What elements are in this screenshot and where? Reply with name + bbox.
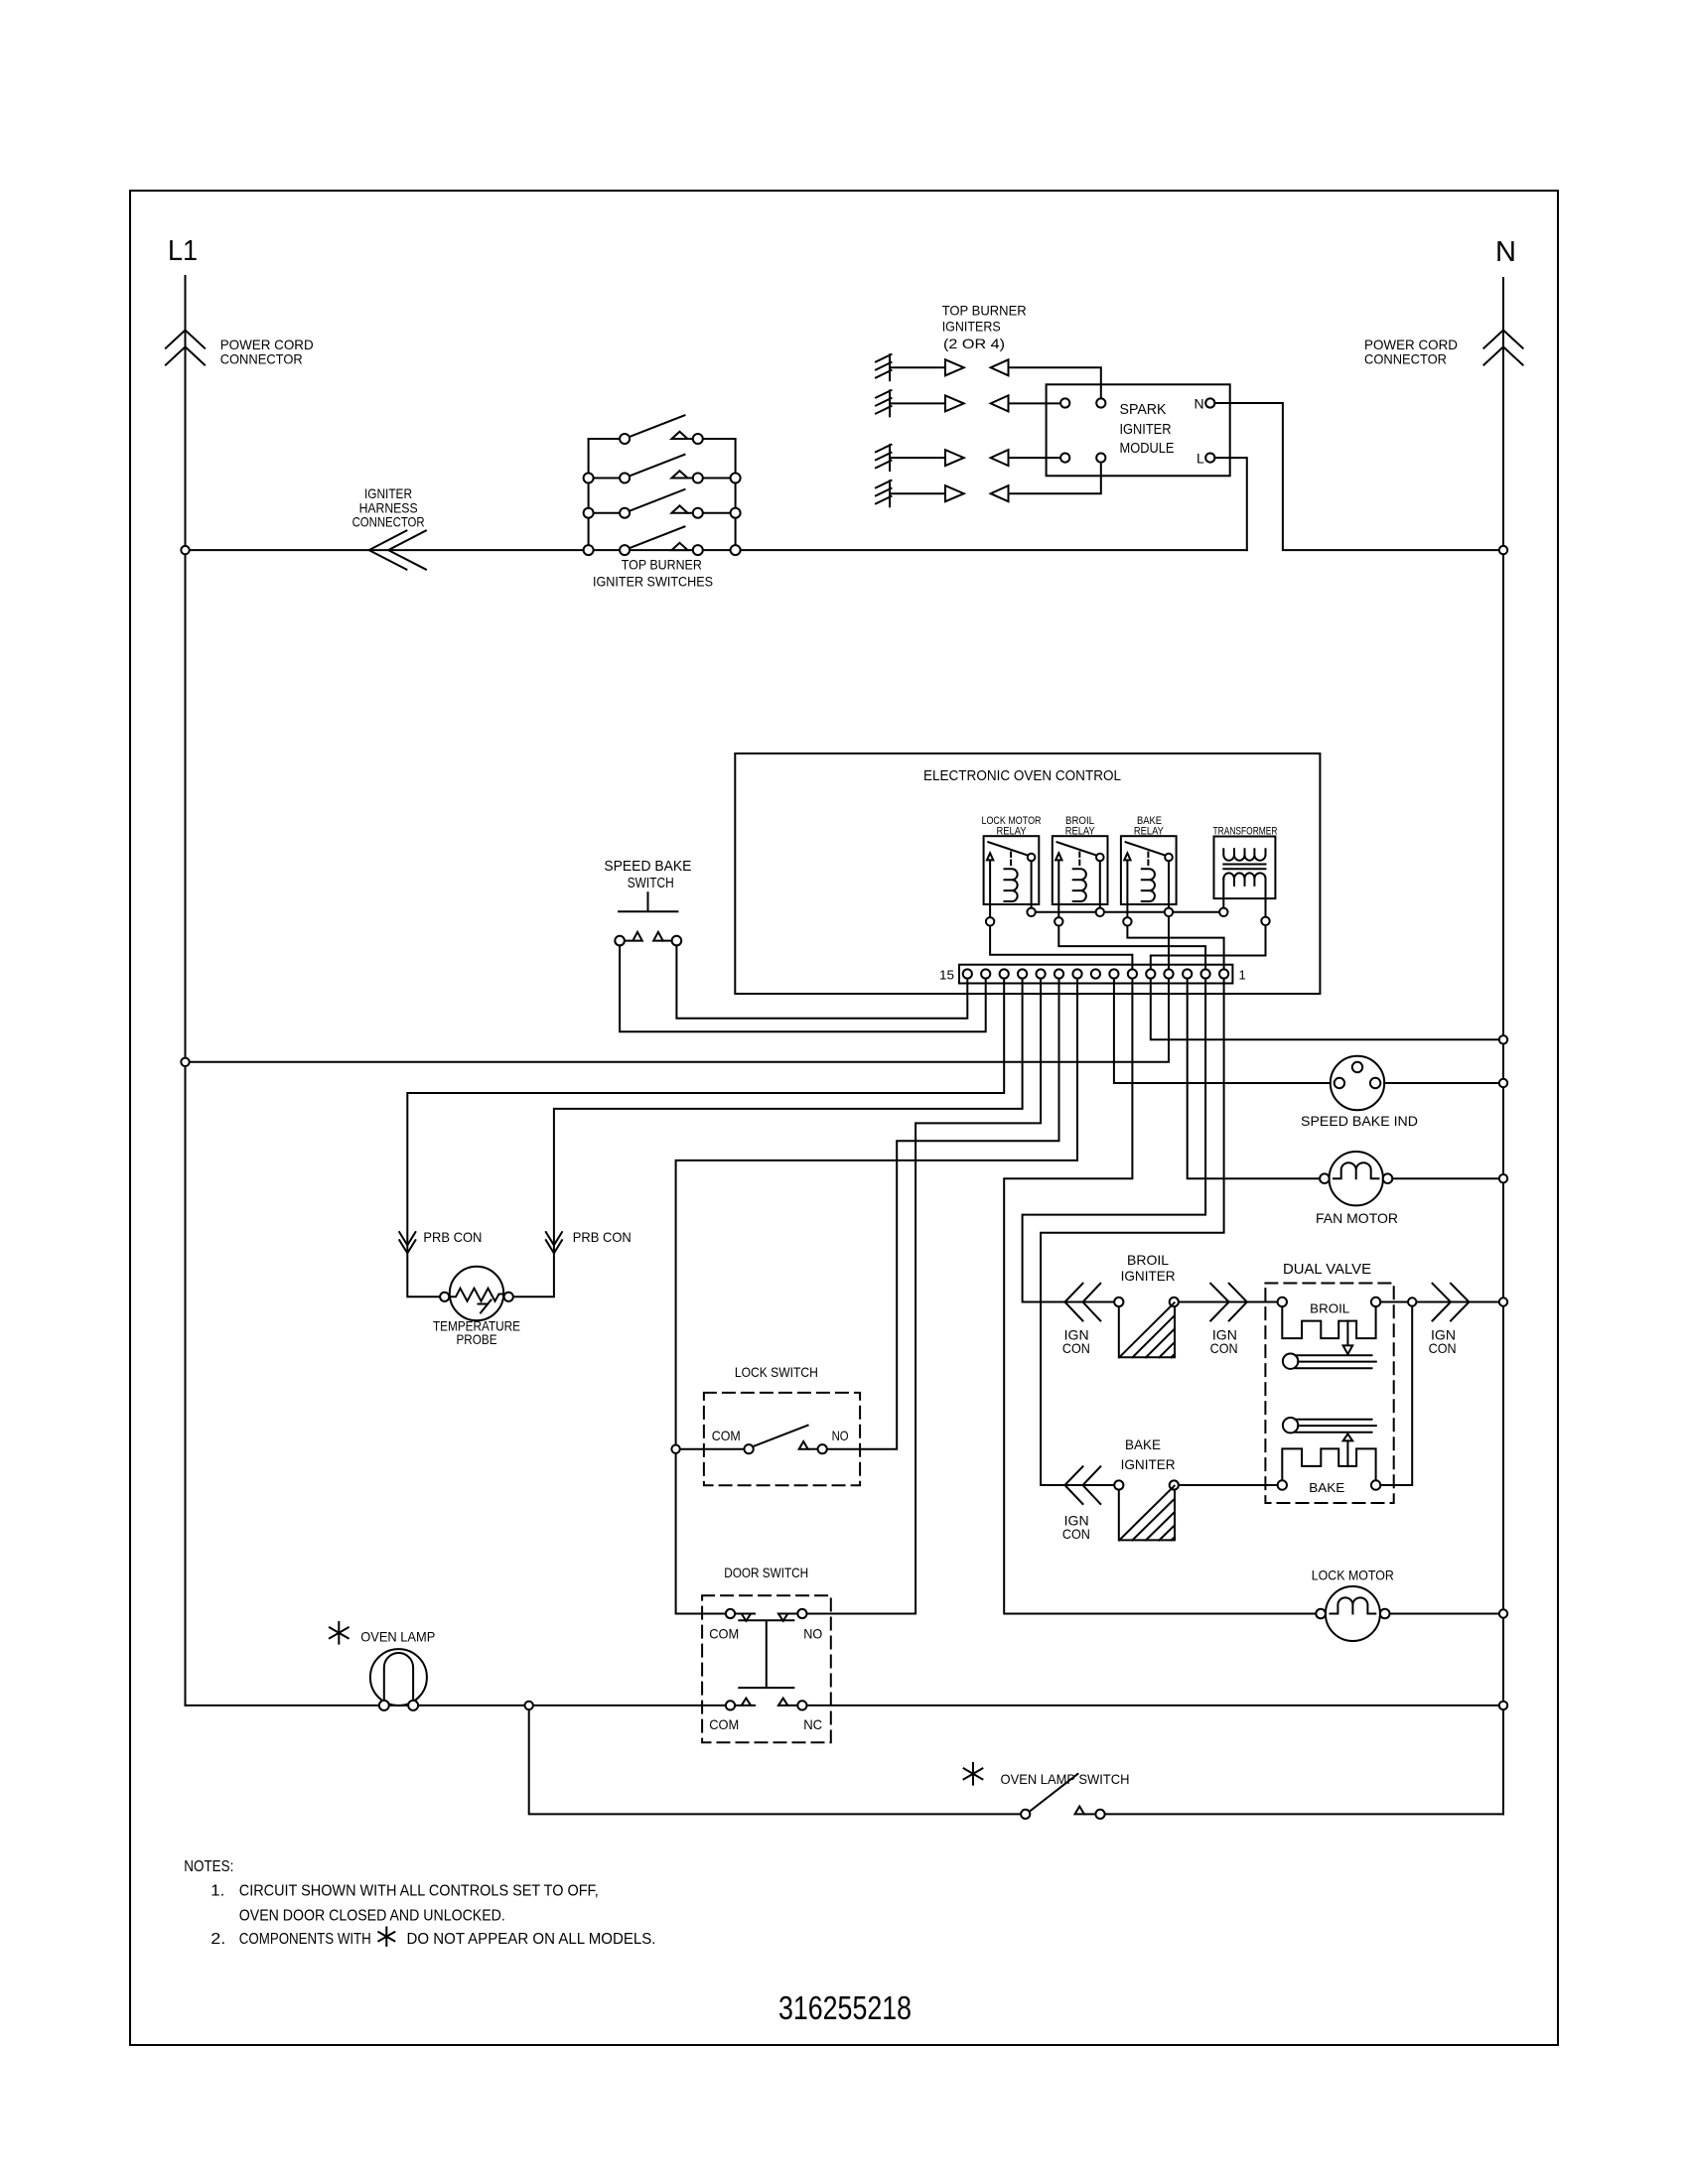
door switch actuator link [739, 1620, 793, 1688]
door switch S3 [702, 1565, 831, 1742]
relay K2 broil relay [1053, 815, 1108, 926]
wire oven lamp switch to N line [1105, 1813, 1503, 1815]
wire pin 10 to lock switch NO [827, 979, 1059, 1449]
svg-text:DOOR SWITCH: DOOR SWITCH [724, 1565, 808, 1580]
wire module L to main feed [1214, 458, 1246, 550]
door switch upper contact COM-NO [726, 1609, 735, 1618]
top burner igniter row 1 [876, 354, 1101, 397]
node N line at broil row [1499, 1297, 1507, 1305]
dual valve broil solenoid [1278, 1297, 1381, 1354]
svg-text:SPARK: SPARK [1120, 401, 1167, 418]
oven lamp switch S4 [1021, 1774, 1105, 1819]
svg-text:SPEED BAKE: SPEED BAKE [604, 858, 691, 875]
node L1 line at pin4 wire [181, 1058, 189, 1066]
svg-text:2.: 2. [211, 1931, 225, 1948]
temperature probe RT1 [433, 1267, 520, 1347]
svg-text:N: N [1195, 396, 1204, 412]
svg-text:NOTES:: NOTES: [184, 1858, 233, 1875]
probe connector PRB CON (right) chevrons [546, 1232, 562, 1253]
top burner igniter row 3 [876, 445, 1058, 471]
wire junction to lock switch COM [680, 1448, 745, 1450]
svg-text:L1: L1 [168, 235, 198, 267]
svg-text:BAKE: BAKE [1309, 1480, 1344, 1495]
node on L1 line at main feed [181, 546, 189, 554]
svg-text:COMPONENTS WITH: COMPONENTS WITH [239, 1931, 371, 1948]
svg-text:CON: CON [1062, 1526, 1090, 1542]
switch row 2 [594, 455, 731, 478]
probe connector PRB CON (left) chevrons [399, 1232, 415, 1253]
svg-text:CONNECTOR: CONNECTOR [220, 351, 303, 367]
dual valve broil burner outlet [1283, 1354, 1376, 1369]
svg-text:OVEN DOOR CLOSED AND UNLOCKED.: OVEN DOOR CLOSED AND UNLOCKED. [239, 1908, 505, 1925]
power cord connector (left) chevrons [166, 331, 205, 365]
wire bake igniter to dual valve bake [1179, 1484, 1278, 1486]
svg-text:NO: NO [832, 1428, 849, 1443]
bake igniter element (hatched) [1114, 1480, 1179, 1540]
svg-text:FAN MOTOR: FAN MOTOR [1316, 1210, 1398, 1226]
svg-text:DUAL VALVE: DUAL VALVE [1283, 1261, 1371, 1278]
svg-text:BROIL: BROIL [1310, 1301, 1349, 1316]
svg-text:L: L [1196, 451, 1204, 467]
svg-text:IGNITER: IGNITER [1121, 1268, 1176, 1284]
terminal strip P1 [939, 965, 1246, 984]
svg-text:15: 15 [939, 968, 954, 983]
notes text [184, 1858, 655, 1948]
wire broil igniter to dual valve broil [1179, 1301, 1278, 1303]
igniter connector IGN CON chevrons (bake left) [1064, 1466, 1100, 1504]
wire module N to N line [1214, 403, 1498, 550]
igniter connector IGN CON chevrons (broil right) [1433, 1284, 1470, 1321]
wire pin 6 to lock motor [1004, 979, 1315, 1614]
oven lamp DS2 [370, 1649, 427, 1710]
node N line at fan motor [1499, 1174, 1507, 1182]
node N line at bottom run [1499, 1702, 1507, 1709]
svg-text:316255218: 316255218 [778, 1989, 912, 2026]
node N line at pin5 wire [1499, 1035, 1507, 1043]
wire lock relay coil terminal to pin 6 [990, 926, 1132, 970]
svg-text:SPEED BAKE IND: SPEED BAKE IND [1301, 1113, 1418, 1129]
svg-text:BAKE: BAKE [1125, 1436, 1161, 1452]
wire pin 5 to N line [1151, 979, 1499, 1040]
wire pin 11 to door switch NO [807, 979, 1042, 1614]
wire L1 bottom run through lamp and door switch to N line [186, 1705, 1499, 1706]
wire N vertical line [1502, 278, 1504, 1814]
spark igniter module U1 [1047, 384, 1230, 476]
relay K3 bake relay [1121, 815, 1177, 926]
top burner igniter row 2 [876, 390, 1058, 416]
svg-text:BROIL: BROIL [1127, 1252, 1169, 1268]
wire pin 1 to bake igniter row [1041, 979, 1224, 1485]
wire speed bake switch to pin 15 [676, 945, 967, 1018]
svg-text:CON: CON [1429, 1340, 1457, 1356]
igniter harness connector chevrons [369, 531, 426, 570]
svg-text:CONNECTOR: CONNECTOR [352, 514, 425, 530]
wire broil relay coil terminal to pin 2 [1058, 926, 1205, 970]
node lock switch feed junction [671, 1445, 679, 1453]
fan motor M1 [1316, 1152, 1398, 1226]
wire fan motor to N line [1392, 1177, 1499, 1179]
wire L1 vertical line [185, 276, 187, 1706]
svg-text:ELECTRONIC OVEN CONTROL: ELECTRONIC OVEN CONTROL [923, 767, 1121, 784]
svg-text:NC: NC [803, 1716, 822, 1732]
svg-text:N: N [1495, 236, 1516, 268]
svg-text:PRB CON: PRB CON [573, 1229, 632, 1245]
svg-text:LOCK SWITCH: LOCK SWITCH [735, 1364, 818, 1380]
svg-text:CON: CON [1062, 1340, 1090, 1356]
svg-text:IGNITER SWITCHES: IGNITER SWITCHES [593, 574, 713, 590]
node lamp switch branch [525, 1702, 533, 1709]
igniter connector IGN CON chevrons (broil mid) [1210, 1284, 1247, 1321]
svg-text:COM: COM [709, 1716, 739, 1732]
svg-text:CONNECTOR: CONNECTOR [1364, 351, 1447, 367]
igniter connector IGN CON chevrons (broil left) [1064, 1284, 1100, 1321]
wire bake relay contact to pin 4 [1168, 916, 1170, 969]
top burner igniter row 4 [876, 465, 1101, 507]
svg-text:DO NOT APPEAR ON ALL MODELS.: DO NOT APPEAR ON ALL MODELS. [407, 1931, 656, 1948]
lock motor M2 [1312, 1568, 1394, 1642]
wire bake relay coil terminal to pin 1 [1127, 926, 1223, 970]
dual valve bake burner outlet [1283, 1418, 1376, 1433]
wire pin 3 to fan motor [1188, 979, 1325, 1179]
wire pin 7 to speed bake indicator [1114, 979, 1329, 1083]
wire pin 2 to broil igniter row [1023, 979, 1206, 1302]
svg-text:CIRCUIT SHOWN WITH ALL CONTROL: CIRCUIT SHOWN WITH ALL CONTROLS SET TO O… [239, 1883, 599, 1900]
svg-text:COM: COM [712, 1428, 741, 1443]
electronic oven control box [735, 753, 1320, 994]
power cord connector (right) chevrons [1483, 331, 1522, 365]
speed bake indicator DS1 [1301, 1056, 1418, 1129]
wire relay output bus [1036, 911, 1219, 913]
svg-text:PRB CON: PRB CON [423, 1229, 482, 1245]
svg-text:TOP BURNER: TOP BURNER [622, 557, 702, 573]
svg-text:TOP BURNER: TOP BURNER [942, 303, 1027, 319]
wire pin 12 to right probe connector [513, 979, 1023, 1297]
wire transformer right lead to pin 5 [1151, 925, 1266, 969]
wire pin 13 to left probe connector [407, 979, 1004, 1297]
svg-text:LOCK MOTOR: LOCK MOTOR [1312, 1568, 1394, 1583]
wire dual valve bake to broil-bake junction [1380, 1306, 1412, 1485]
svg-text:OVEN LAMP: OVEN LAMP [360, 1629, 435, 1645]
border frame [130, 191, 1558, 2045]
door switch lower contact COM-NC [726, 1701, 735, 1709]
svg-text:COM: COM [709, 1626, 739, 1642]
svg-text:PROBE: PROBE [457, 1331, 497, 1347]
wire lamp branch to oven lamp switch [529, 1709, 1021, 1814]
svg-text:1: 1 [1239, 968, 1246, 983]
svg-text:CON: CON [1210, 1340, 1238, 1356]
node N line at indicator [1499, 1079, 1507, 1087]
svg-text:IGNITER: IGNITER [1120, 421, 1172, 438]
wire speed bake indicator to N line [1384, 1082, 1499, 1084]
broil igniter element (hatched) [1114, 1297, 1179, 1357]
wire pin 4 to L1 line [190, 979, 1169, 1062]
switch row 1 [589, 415, 736, 439]
node N line at lock motor [1499, 1609, 1507, 1617]
oven lamp switch asterisk [964, 1763, 983, 1785]
svg-text:NO: NO [803, 1626, 822, 1642]
switch row 4 [630, 526, 685, 548]
wire lock motor to N line [1390, 1613, 1499, 1615]
relay K1 lock motor relay [982, 815, 1042, 926]
svg-text:MODULE: MODULE [1120, 440, 1175, 457]
svg-text:1.: 1. [211, 1883, 224, 1900]
wire dual valve broil to N line [1380, 1301, 1499, 1303]
wire main L1 feed line [186, 549, 1247, 551]
speed bake switch S1 [604, 858, 691, 945]
wire pin 9 to lock switch COM and door switch COM [676, 979, 1077, 1614]
node N line at main feed [1499, 546, 1507, 554]
svg-text:SWITCH: SWITCH [628, 875, 674, 891]
wire speed bake switch to pin 14 [620, 945, 986, 1031]
switch row 3 [594, 489, 731, 513]
lock switch S2 [704, 1364, 860, 1485]
svg-text:IGNITERS: IGNITERS [942, 319, 1001, 335]
transformer T1 [1213, 826, 1278, 926]
dual valve bake solenoid [1278, 1433, 1381, 1495]
svg-text:(2 OR 4): (2 OR 4) [943, 336, 1005, 351]
svg-text:IGNITER: IGNITER [1121, 1456, 1176, 1472]
top burner igniter switches box [584, 415, 741, 589]
node broil-bake junction [1408, 1297, 1416, 1305]
oven lamp asterisk [330, 1622, 349, 1644]
